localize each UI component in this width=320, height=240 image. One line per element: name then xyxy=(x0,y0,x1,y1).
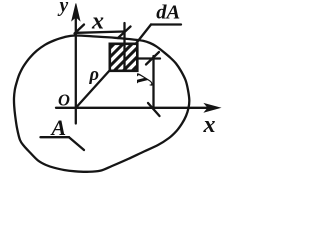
svg-text:dA: dA xyxy=(156,2,180,24)
dA leader slant xyxy=(136,25,151,44)
A label leader slant xyxy=(69,137,84,150)
hatching of dA xyxy=(58,0,203,100)
svg-text:O: O xyxy=(58,91,70,110)
x dimension left tick xyxy=(75,25,85,34)
y dimension extension from element xyxy=(137,57,160,59)
svg-text:x: x xyxy=(91,9,104,35)
x dimension right tick xyxy=(118,27,131,39)
svg-text:y: y xyxy=(58,0,69,17)
y dimension line xyxy=(152,56,154,109)
y dimension bottom tick xyxy=(148,103,160,116)
dA leader horizontal xyxy=(151,23,181,25)
svg-text:x: x xyxy=(203,112,216,138)
y axis arrowhead xyxy=(72,4,80,21)
y axis shaft xyxy=(75,16,77,124)
element dA square xyxy=(110,44,138,71)
x dimension extension line through element xyxy=(123,23,125,71)
svg-text:y: y xyxy=(128,73,153,87)
rho line O to element corner xyxy=(77,70,110,107)
A label leader underline xyxy=(41,136,70,138)
y dimension top tick xyxy=(146,52,159,65)
x axis arrowhead xyxy=(205,104,221,112)
x axis shaft xyxy=(56,107,207,109)
area outline (blob) xyxy=(14,35,189,171)
x dimension line xyxy=(77,32,124,33)
svg-text:ρ: ρ xyxy=(89,65,100,85)
svg-text:A: A xyxy=(50,115,67,140)
